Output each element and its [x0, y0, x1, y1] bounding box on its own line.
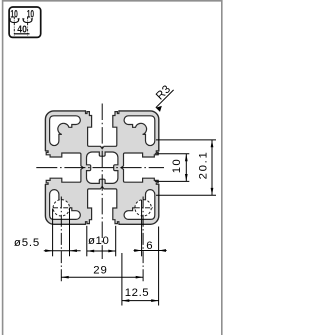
6 arrows outside pointing in — [134, 249, 141, 252]
icon left slot arc symbol — [10, 19, 32, 23]
icon text 10 10 — [10, 9, 34, 36]
ext line ø10 right — [115, 226, 117, 256]
dim line ø5.5 — [44, 250, 81, 252]
R3 leader line — [156, 90, 174, 108]
R3 arrowhead — [156, 106, 162, 112]
dim line 10 — [185, 154, 187, 182]
dim line 20.1 — [211, 140, 213, 195]
horizontal main centerline — [36, 167, 164, 169]
10 arrows inside pointing out — [185, 154, 188, 161]
ext line 12.5 left — [121, 253, 123, 306]
dim line 29 — [61, 276, 143, 278]
centerlines — [36, 104, 164, 282]
center cavity 4-lobed — [87, 152, 118, 183]
dim line 12.5 — [122, 300, 159, 302]
ext line 10 bottom — [155, 180, 190, 182]
ext line 20.1 bottom — [156, 194, 216, 196]
dimension graphics — [44, 90, 216, 306]
ø5.5 core hole bottom-right (dashed) — [135, 200, 151, 216]
hole centerline bottom-left horizontal — [53, 207, 71, 209]
12.5 arrows inside pointing out — [122, 299, 129, 302]
dim line 6 — [134, 250, 167, 252]
icon arc arrowheads — [9, 18, 33, 21]
icon right slot arc symbol — [23, 19, 32, 23]
icon box top-left — [9, 7, 41, 37]
ext line 10 top — [155, 153, 190, 155]
icon dashed position lines — [14, 17, 30, 36]
ext line ø10 left — [86, 226, 88, 256]
hole centerline bottom-right vertical — [142, 197, 144, 282]
hole centerline bottom-right horizontal — [135, 207, 153, 209]
dimension texts — [14, 83, 210, 299]
ext line ø5.5 right — [69, 209, 71, 257]
svg-text:12.5: 12.5 — [125, 287, 149, 299]
ø5.5 arrows outside pointing in — [45, 249, 52, 252]
ext line ø5.5 left — [52, 209, 54, 257]
ø10 arrows inside pointing out — [87, 250, 94, 253]
dim line ø10 — [87, 250, 116, 252]
hole centerline bottom-left vertical — [60, 197, 62, 282]
ext line right edge (6 and 12.5) — [158, 227, 160, 306]
svg-text:6: 6 — [146, 240, 153, 252]
svg-text:ø10: ø10 — [88, 235, 109, 247]
svg-text:29: 29 — [93, 264, 107, 276]
29 arrows inside pointing out — [61, 276, 68, 279]
svg-text:10: 10 — [171, 158, 183, 173]
icon 40 dimension line — [14, 33, 30, 35]
svg-text:20.1: 20.1 — [198, 150, 210, 179]
vertical main centerline — [101, 104, 103, 260]
arrowheads — [45, 106, 213, 302]
ø5.5 core hole bottom-left (dashed) — [53, 200, 69, 216]
ext line 6 left — [141, 200, 143, 256]
profile body — [45, 111, 158, 224]
ext line 20.1 top — [156, 139, 216, 141]
20.1 arrows inside pointing out — [211, 140, 214, 147]
svg-text:ø5.5: ø5.5 — [14, 237, 40, 249]
page frame — [3, 1, 222, 335]
